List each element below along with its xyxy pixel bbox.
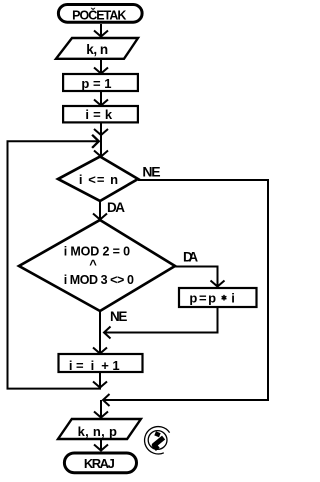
wire NE2 to i=i+1 [99, 311, 101, 354]
logo glyph dot [154, 431, 160, 437]
wire input to p=1 [100, 59, 102, 74]
logo stamp inner circle [148, 431, 167, 450]
svg-text:POČETAK: POČETAK [72, 8, 126, 23]
logo glyph stroke [154, 438, 163, 450]
wire DA branch [175, 267, 218, 287]
output k, n, p [58, 419, 141, 439]
process p = p * i [179, 288, 257, 307]
svg-text:^: ^ [89, 257, 97, 272]
svg-text:p = p: p = p [189, 291, 216, 306]
svg-text:DA: DA [107, 200, 125, 215]
decision i <= n [58, 157, 138, 202]
wire i=k to junction [100, 122, 102, 156]
wire return from p=p*i [104, 307, 218, 333]
terminal POCETAK [58, 5, 142, 23]
wire NE branch [103, 180, 268, 400]
svg-text:NE: NE [142, 163, 160, 179]
svg-text:i <= n: i <= n [79, 172, 118, 187]
wire terminal to input [100, 24, 102, 37]
svg-text:k, n: k, n [86, 42, 108, 57]
svg-text:i MOD 3 <> 0: i MOD 3 <> 0 [64, 273, 134, 287]
wire decision1 to decision2 [99, 201, 101, 219]
svg-text:p = 1: p = 1 [81, 76, 111, 91]
wire loop back [99, 372, 101, 388]
svg-text:KRAJ: KRAJ [84, 456, 115, 471]
svg-text:NE: NE [110, 309, 127, 324]
wire junction to decision 1 [94, 151, 108, 157]
decision i MOD [19, 220, 175, 311]
svg-text:i: i [231, 291, 235, 306]
svg-text:i = k: i = k [85, 107, 112, 122]
process p = 1 [63, 74, 138, 91]
wire output to KRAJ [100, 439, 102, 451]
wire p=1 to i=k [100, 91, 102, 106]
process i = i + 1 [59, 354, 143, 372]
process i = k [63, 106, 138, 122]
input k, n [56, 38, 138, 59]
svg-text:i = i + 1: i = i + 1 [69, 358, 120, 373]
svg-text:DA: DA [183, 250, 198, 265]
svg-text:k, n, p: k, n, p [78, 424, 117, 439]
terminal KRAJ [64, 453, 136, 473]
loop junction arrow [93, 135, 100, 148]
logo stamp outer arc [145, 427, 170, 454]
svg-text:i MOD 2 = 0: i MOD 2 = 0 [64, 244, 130, 258]
asterisk star in p = p * i [222, 295, 227, 301]
